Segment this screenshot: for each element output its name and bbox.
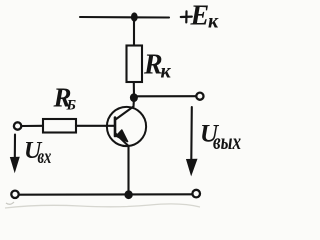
- svg-text:вых: вых: [213, 130, 241, 155]
- svg-text:к: к: [208, 11, 219, 33]
- resistor RK: [127, 46, 143, 83]
- arrow Uin: [14, 135, 16, 161]
- transistor collector lead: [116, 98, 135, 120]
- wire emitter down to bottom rail: [127, 146, 129, 194]
- svg-text:E: E: [190, 1, 210, 32]
- wire top supply rail: [80, 16, 169, 19]
- arrow Uout: [190, 107, 193, 160]
- faint scan artifact bottom: [5, 204, 200, 208]
- terminal bottom left: [11, 191, 18, 198]
- transistor emitter arrow: [116, 130, 127, 141]
- wire input terminal to Rb: [22, 125, 43, 127]
- svg-text:к: к: [161, 61, 172, 83]
- wire Rk bottom to collector node: [133, 82, 135, 97]
- terminal input: [14, 122, 21, 129]
- node bottom junction: [124, 190, 132, 199]
- svg-text:вх: вх: [38, 144, 52, 167]
- transistor base bar: [114, 118, 117, 137]
- wire collector node to output terminal: [134, 95, 196, 97]
- faint smudge below left terminal: [6, 202, 14, 204]
- terminal bottom right: [192, 190, 200, 198]
- node junction at +Ek rail: [131, 12, 138, 21]
- node collector junction: [130, 93, 138, 102]
- wire base from Rb to transistor: [76, 125, 114, 127]
- terminal output: [196, 93, 203, 100]
- wire bottom rail: [19, 193, 192, 195]
- transistor Q1 circle: [107, 107, 146, 146]
- svg-text:Б: Б: [66, 98, 77, 114]
- label +Ek: [181, 11, 192, 22]
- transistor emitter lead: [116, 134, 129, 147]
- wire rail to Rk top: [133, 17, 135, 46]
- resistor Rb: [43, 119, 76, 133]
